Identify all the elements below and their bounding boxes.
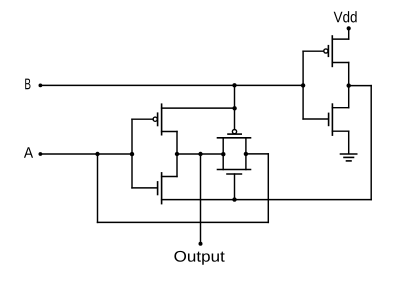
junction output stem xyxy=(198,152,202,156)
node B label xyxy=(25,79,30,90)
wire B branch vertical xyxy=(234,85,236,129)
wire bottom horizontal xyxy=(98,221,269,223)
junction A to Q1 Q2 gates xyxy=(130,152,134,156)
junction drains xyxy=(175,152,179,156)
transistor Q3 (TG PMOS) xyxy=(218,130,251,170)
wire A loop down left xyxy=(97,154,99,222)
junction TG left xyxy=(221,152,225,156)
transistor Q5 (PMOS right) xyxy=(303,28,349,85)
ground xyxy=(341,154,357,161)
transistor Q6 (NMOS right) xyxy=(303,86,349,154)
wire A horizontal xyxy=(40,153,132,155)
junction B to Q1 source and TG pmos gate xyxy=(232,83,236,87)
terminal dot B xyxy=(39,84,43,88)
wire inverter gates vertical xyxy=(302,51,304,119)
node Vdd label xyxy=(334,11,357,22)
wire loop up to TG right xyxy=(267,154,269,223)
wire drains node horizontal xyxy=(177,153,223,155)
wire inverter out horizontal xyxy=(349,85,372,87)
transistor Q1 (PMOS left) xyxy=(132,104,235,154)
junction TG nmos gate xyxy=(232,197,236,201)
transistor Q4 (TG NMOS) xyxy=(218,170,251,200)
wire output stem vertical xyxy=(200,154,202,244)
wire nmos source bus horizontal xyxy=(162,199,372,201)
wire TG right horizontal xyxy=(246,153,268,155)
junction inverter out xyxy=(347,83,351,87)
terminal dot Output xyxy=(199,242,203,246)
junction A to bottom loop xyxy=(95,152,99,156)
junction Q1 source to B branch xyxy=(232,106,236,110)
transistor Q2 (NMOS left) xyxy=(132,154,177,204)
node Output label xyxy=(174,251,224,265)
terminal dot Vdd xyxy=(347,26,351,30)
node A label xyxy=(24,147,33,158)
junction B to inverter gates xyxy=(301,83,305,87)
wire feedback vertical right xyxy=(370,86,372,200)
junction TG right xyxy=(244,152,248,156)
terminal dot A xyxy=(39,152,43,156)
wire B horizontal xyxy=(40,84,303,86)
